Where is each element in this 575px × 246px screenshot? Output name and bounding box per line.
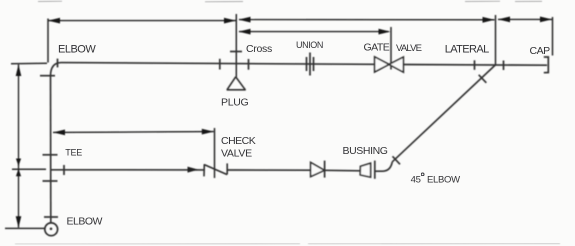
svg-text:TEE: TEE xyxy=(65,147,82,157)
svg-text:PLUG: PLUG xyxy=(221,96,249,108)
svg-text:ELBOW: ELBOW xyxy=(58,43,96,55)
svg-text:GATE: GATE xyxy=(364,41,390,53)
svg-text:CAP: CAP xyxy=(530,45,551,57)
svg-text:LATERAL: LATERAL xyxy=(445,43,489,55)
svg-text:VALVE: VALVE xyxy=(396,43,422,54)
svg-text:BUSHING: BUSHING xyxy=(343,145,388,157)
svg-text:45: 45 xyxy=(411,174,421,185)
svg-text:UNION: UNION xyxy=(296,40,323,50)
svg-text:ELBOW: ELBOW xyxy=(427,174,460,185)
svg-text:Cross: Cross xyxy=(246,43,272,55)
svg-text:VALVE: VALVE xyxy=(221,147,252,159)
svg-text:CHECK: CHECK xyxy=(221,135,256,147)
svg-text:ELBOW: ELBOW xyxy=(67,215,103,227)
